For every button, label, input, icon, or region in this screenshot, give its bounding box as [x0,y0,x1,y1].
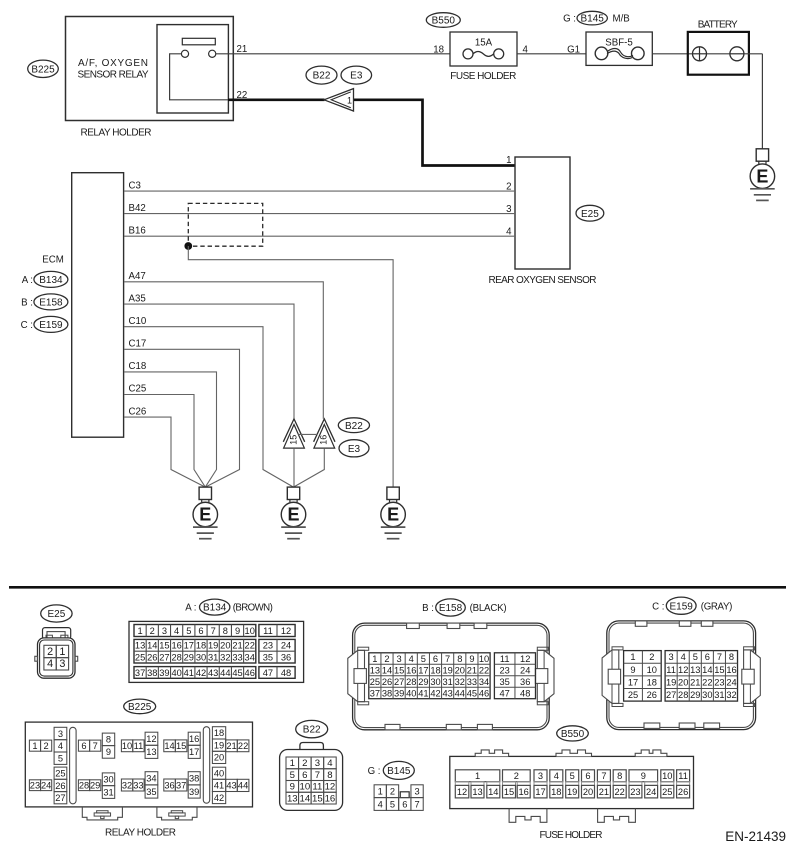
svg-text:1: 1 [475,771,480,781]
svg-text:18: 18 [430,665,440,675]
svg-text:SBF-5: SBF-5 [605,37,632,48]
svg-text:12: 12 [325,782,336,793]
svg-text:33: 33 [133,780,143,790]
svg-text:35: 35 [500,677,510,687]
svg-text:26: 26 [147,652,157,662]
svg-text:30: 30 [430,677,440,687]
svg-text:1: 1 [347,95,352,105]
svg-text:36: 36 [164,780,174,790]
connector E25 pinout [35,628,78,679]
svg-text:6: 6 [302,770,307,781]
svg-text:16: 16 [319,435,329,445]
svg-text:46: 46 [245,668,255,678]
connector E158 pinout shell [348,623,554,730]
svg-text:13: 13 [146,747,156,757]
svg-text:9: 9 [235,626,240,636]
svg-text:43: 43 [226,781,236,791]
svg-text:19: 19 [208,641,218,651]
svg-text:REAR OXYGEN SENSOR: REAR OXYGEN SENSOR [489,275,597,286]
svg-text:13: 13 [287,793,298,804]
svg-text:B22: B22 [313,71,331,82]
svg-text:32: 32 [455,677,465,687]
svg-text:27: 27 [666,690,676,700]
svg-text:B550: B550 [432,16,456,27]
pin 4 [523,44,529,55]
svg-text:4: 4 [47,658,53,670]
svg-text:26: 26 [55,781,65,791]
fuse SBF-5 [595,37,644,59]
svg-text:B :: B : [21,298,33,309]
svg-text:8: 8 [223,626,228,636]
svg-text:5: 5 [186,626,191,636]
svg-text:4: 4 [409,654,414,664]
svg-text:B225: B225 [128,702,152,713]
shield joint 15 [283,419,304,448]
connector label B22 (top) [306,66,337,84]
svg-text:25: 25 [628,690,638,700]
svg-text:6: 6 [433,654,438,664]
svg-text:27: 27 [394,677,404,687]
svg-text:40: 40 [214,769,224,779]
svg-text:19: 19 [567,787,577,797]
svg-text:E159: E159 [670,601,694,612]
connector label B: E158 (BLACK) [422,599,506,616]
svg-text:35: 35 [263,652,273,662]
svg-text:42: 42 [430,688,440,698]
connector label A: B134 [22,271,68,287]
svg-text:15: 15 [176,741,186,751]
pin C26 [129,406,147,417]
svg-text:23: 23 [30,781,40,791]
svg-text:32: 32 [726,690,736,700]
pin 2 (sensor) [506,181,511,192]
svg-text:39: 39 [159,668,169,678]
svg-text:41: 41 [418,688,428,698]
svg-text:E159: E159 [39,320,63,331]
svg-text:E25: E25 [581,209,599,220]
svg-text:36: 36 [520,677,530,687]
wire battery to ground [761,54,763,149]
svg-text:1: 1 [138,626,143,636]
connector B145 pinout [374,785,423,811]
relay name label [78,58,149,81]
wire between shield joints [298,433,317,435]
svg-text:13: 13 [472,787,482,797]
svg-text:23: 23 [630,787,640,797]
svg-text:36: 36 [281,652,291,662]
fuse 15A [463,37,504,59]
svg-text:26: 26 [678,787,688,797]
svg-text:13: 13 [370,665,380,675]
svg-text:(GRAY): (GRAY) [701,601,733,612]
svg-text:11: 11 [134,741,144,751]
svg-text:2: 2 [514,771,519,781]
svg-text:34: 34 [479,677,489,687]
svg-text:5: 5 [58,754,63,764]
svg-text:12: 12 [281,626,291,636]
svg-text:20: 20 [583,787,593,797]
svg-text:3: 3 [59,658,65,670]
svg-text:7: 7 [211,626,216,636]
svg-text:12: 12 [457,787,467,797]
svg-text:24: 24 [520,665,530,675]
svg-text:37: 37 [176,780,186,790]
svg-text:B134: B134 [39,275,63,286]
svg-text:32: 32 [220,652,230,662]
pin 4 (sensor) [506,226,512,237]
svg-text:8: 8 [617,771,622,781]
svg-text:B225: B225 [31,64,55,75]
svg-text:21: 21 [226,741,236,751]
junction node on B16 [184,242,192,250]
svg-text:22: 22 [615,787,625,797]
svg-text:28: 28 [406,677,416,687]
ECM box [72,173,124,438]
wire C17 [124,349,240,487]
svg-text:E: E [756,166,768,186]
svg-text:C17: C17 [129,339,147,350]
svg-text:B22: B22 [345,421,363,432]
svg-text:1: 1 [630,652,635,662]
svg-text:11: 11 [263,626,273,636]
pin C3 [129,180,141,191]
wire SBF-5 to battery [652,53,694,55]
svg-text:44: 44 [238,781,248,791]
svg-text:34: 34 [245,652,255,662]
svg-text:A/F, OXYGEN: A/F, OXYGEN [78,58,148,69]
svg-text:29: 29 [690,690,700,700]
svg-text:14: 14 [702,665,712,675]
connector label E3 (mid) [339,440,369,457]
svg-text:20: 20 [220,641,230,651]
svg-text:7: 7 [315,770,320,781]
svg-text:18: 18 [647,677,657,687]
svg-text:B145: B145 [581,14,605,25]
svg-text:40: 40 [171,668,181,678]
pin B42 [129,203,146,214]
pin G1 [567,44,580,55]
svg-text:BATTERY: BATTERY [698,20,738,31]
relay contact left [181,50,188,57]
wire C10 [124,327,294,487]
connector label B22 (mid) [338,418,369,433]
svg-text:4: 4 [58,741,63,751]
svg-text:12: 12 [678,665,688,675]
connector B225 pinout [25,722,252,807]
svg-text:17: 17 [535,787,545,797]
svg-text:5: 5 [390,799,395,809]
svg-text:RELAY HOLDER: RELAY HOLDER [81,128,152,139]
svg-text:3: 3 [397,654,402,664]
connector label A: B134 (BROWN) [185,599,273,615]
svg-text:30: 30 [103,775,113,785]
svg-text:15: 15 [159,641,169,651]
svg-text:10: 10 [479,654,489,664]
svg-text:3: 3 [669,652,674,662]
connector label B22 (pinout) [296,720,328,737]
svg-text:18: 18 [551,787,561,797]
svg-text:9: 9 [106,747,111,757]
svg-text:21: 21 [690,677,700,687]
svg-text:10: 10 [662,771,672,781]
pin 22 [237,90,248,101]
connector label B550 (pinout) [557,726,589,741]
ECM caption [42,255,64,266]
svg-text:29: 29 [418,677,428,687]
svg-text:42: 42 [214,793,224,803]
svg-text:10: 10 [299,782,310,793]
svg-text:35: 35 [146,787,156,797]
svg-text:22: 22 [479,665,489,675]
svg-text:E: E [287,505,299,525]
svg-text:11: 11 [312,782,322,793]
svg-text:RELAY HOLDER: RELAY HOLDER [105,828,176,839]
connector E159 pinout shell [602,621,760,730]
svg-text:8: 8 [729,652,734,662]
relay contact right [209,50,216,57]
svg-text:43: 43 [442,688,452,698]
wire relay internal [170,54,228,100]
svg-text:C26: C26 [129,406,147,417]
svg-text:7: 7 [93,741,98,751]
svg-text:15: 15 [288,435,298,445]
svg-text:30: 30 [702,690,712,700]
svg-text:47: 47 [500,688,510,698]
pin 3 (sensor) [506,204,511,215]
svg-text:10: 10 [122,741,132,751]
wire fuse pin4 to SBF G1 [517,53,586,55]
svg-text:A47: A47 [129,271,146,282]
wire A47 [124,282,323,419]
svg-text:44: 44 [220,668,230,678]
svg-text:G :: G : [368,766,381,777]
svg-text:24: 24 [41,781,51,791]
svg-text:15: 15 [504,787,514,797]
connector B22 pinout [280,743,343,811]
svg-text:41: 41 [184,668,194,678]
svg-text:3: 3 [58,729,63,739]
svg-text:5: 5 [693,652,698,662]
svg-text:37: 37 [370,688,380,698]
pin C10 [129,316,147,327]
svg-text:19: 19 [666,677,676,687]
svg-text:5: 5 [290,770,295,781]
figure number EN-21439 [725,829,786,844]
svg-text:26: 26 [382,677,392,687]
svg-text:6: 6 [585,771,590,781]
svg-text:12: 12 [146,734,156,744]
svg-text:11: 11 [666,665,676,675]
svg-text:C3: C3 [129,180,141,191]
svg-text:40: 40 [406,688,416,698]
svg-text:E: E [387,505,399,525]
svg-text:22: 22 [238,741,248,751]
svg-text:B42: B42 [129,203,146,214]
svg-text:21: 21 [467,665,477,675]
svg-text:2: 2 [384,654,389,664]
svg-text:15: 15 [394,665,404,675]
connector label E25 (top) [576,205,604,221]
pin 21 [237,44,248,55]
svg-text:C10: C10 [129,316,147,327]
wire B16 [124,235,515,237]
svg-text:23: 23 [263,641,273,651]
svg-text:28: 28 [678,690,688,700]
svg-text:16: 16 [406,665,416,675]
ground E (ECM C17-C26) [193,487,218,539]
svg-text:26: 26 [647,690,657,700]
svg-text:11: 11 [678,771,688,781]
svg-text:17: 17 [189,747,199,757]
svg-text:48: 48 [281,668,291,678]
svg-text:B550: B550 [561,729,585,740]
svg-text:1: 1 [372,654,377,664]
svg-text:33: 33 [232,652,242,662]
fuse holder caption [450,71,516,82]
svg-text:C :: C : [652,601,664,612]
wire C3 [124,190,515,192]
relay holder box [66,17,234,121]
svg-text:7: 7 [445,654,450,664]
wire relay pin22 shielded to sensor pin1 [228,100,515,166]
connector E159 pinout grid [624,651,738,702]
svg-text:E3: E3 [348,444,361,455]
wire shield 16 to ground [294,448,325,487]
pin C17 [129,339,147,350]
pin 18 [433,44,444,55]
svg-text:29: 29 [184,652,194,662]
svg-text:19: 19 [442,665,452,675]
svg-text:2: 2 [302,758,307,769]
svg-text:16: 16 [325,793,336,804]
svg-text:17: 17 [418,665,428,675]
svg-text:B22: B22 [303,725,321,736]
svg-text:9: 9 [630,665,635,675]
fuse SBF-5 box [586,32,652,65]
svg-text:9: 9 [469,654,474,664]
svg-text:(BROWN): (BROWN) [233,603,273,614]
svg-text:FUSE HOLDER: FUSE HOLDER [540,830,603,841]
svg-text:21: 21 [599,787,609,797]
ground E (B16 branch) [381,487,406,539]
svg-text:13: 13 [690,665,700,675]
svg-text:38: 38 [189,774,199,784]
svg-text:25: 25 [135,652,145,662]
svg-text:20: 20 [214,753,224,763]
svg-text:18: 18 [214,728,224,738]
svg-text:16: 16 [726,665,736,675]
svg-text:B145: B145 [387,766,411,777]
connector label B: E158 [21,294,68,310]
svg-text:A :: A : [22,275,33,286]
svg-text:44: 44 [455,688,465,698]
svg-text:28: 28 [79,781,89,791]
svg-text:C :: C : [21,320,33,331]
svg-text:13: 13 [135,641,145,651]
svg-text:47: 47 [263,668,273,678]
svg-text:6: 6 [705,652,710,662]
svg-text:25: 25 [370,677,380,687]
svg-text:B :: B : [422,603,434,614]
svg-text:25: 25 [662,787,672,797]
svg-text:8: 8 [457,654,462,664]
svg-text:14: 14 [147,641,157,651]
svg-text:7: 7 [717,652,722,662]
svg-text:E25: E25 [48,609,66,620]
svg-text:14: 14 [164,741,174,751]
connector E158 pinout grid [369,653,536,699]
svg-text:15: 15 [714,665,724,675]
svg-text:46: 46 [479,688,489,698]
connector label G: B145 (pinout) [368,761,415,779]
svg-text:31: 31 [208,652,218,662]
wire relay pin21 to fuse pin18 [216,53,450,55]
battery [688,32,763,75]
svg-text:4: 4 [681,652,686,662]
svg-text:25: 25 [55,769,65,779]
svg-text:14: 14 [382,665,392,675]
svg-text:3: 3 [315,758,320,769]
wire B16 branch to ground [188,246,393,487]
svg-text:2: 2 [390,787,395,797]
svg-text:27: 27 [55,793,65,803]
svg-text:E: E [199,505,211,525]
ground E (sensor shield) [281,487,306,539]
ground E (battery) [750,149,775,201]
svg-text:16: 16 [519,787,529,797]
svg-text:17: 17 [184,641,194,651]
svg-text:14: 14 [299,793,310,804]
svg-text:34: 34 [146,774,156,784]
svg-text:16: 16 [189,734,199,744]
wire shield 15 to ground [293,448,295,487]
shield outline (dashed) [188,203,262,246]
svg-text:10: 10 [647,665,657,675]
rear oxygen sensor box [515,157,570,269]
svg-text:29: 29 [90,781,100,791]
svg-text:8: 8 [327,770,332,781]
svg-text:5: 5 [421,654,426,664]
svg-text:17: 17 [628,677,638,687]
pin A35 [129,293,146,304]
svg-text:43: 43 [208,668,218,678]
svg-text:45: 45 [232,668,242,678]
relay holder mounting tabs [82,807,197,820]
connector label G: B145 M/B [563,11,630,25]
wire C18 [124,372,217,487]
svg-text:6: 6 [198,626,203,636]
svg-text:16: 16 [171,641,181,651]
svg-text:3: 3 [162,626,167,636]
svg-text:39: 39 [394,688,404,698]
svg-text:9: 9 [641,771,646,781]
svg-text:27: 27 [159,652,169,662]
svg-text:2: 2 [649,652,654,662]
pin 1 (sensor) [506,155,511,166]
svg-text:C25: C25 [129,384,147,395]
svg-text:4: 4 [378,799,383,809]
svg-text:B16: B16 [129,225,146,236]
svg-text:10: 10 [245,626,255,636]
svg-text:20: 20 [678,677,688,687]
shield joint 1 (B22-E3) [324,89,354,111]
connector B134 pinout [129,621,304,682]
svg-text:24: 24 [646,787,656,797]
svg-text:32: 32 [122,780,132,790]
svg-text:2: 2 [150,626,155,636]
connector label C: E159 [21,316,68,332]
svg-text:ECM: ECM [42,255,64,266]
